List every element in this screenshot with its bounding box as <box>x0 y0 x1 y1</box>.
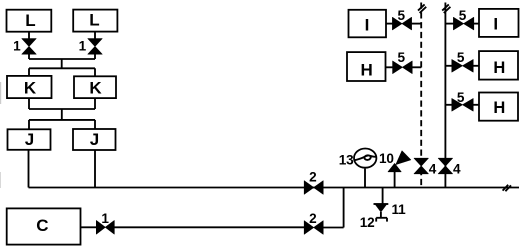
relief valve 10 <box>388 151 411 172</box>
wire J1 down to main line <box>28 150 30 188</box>
svg-text:11: 11 <box>392 202 407 217</box>
box L2 <box>73 10 117 32</box>
wire gauge stub <box>364 169 366 188</box>
break mark on main line (right end) <box>503 185 511 191</box>
svg-text:K: K <box>24 79 37 98</box>
wire bus above J <box>29 119 95 121</box>
wire H-left to valve <box>386 66 393 68</box>
valve 1 (left, under L1) <box>22 39 36 55</box>
wire bus under L valves <box>29 58 95 60</box>
box L1 <box>7 10 52 32</box>
valve 1 (right of C) <box>96 221 114 235</box>
wire valve to H-right row3 <box>473 104 479 106</box>
wire solid header to valve row2 right <box>445 65 452 67</box>
valve 5 (right column, row 2) <box>452 60 473 73</box>
svg-text:5: 5 <box>398 8 406 23</box>
scan artifact streak <box>0 82 1 104</box>
box C <box>7 208 81 244</box>
wire K1 down <box>28 98 30 109</box>
wire L1 to valve <box>28 32 30 39</box>
valve 5 (left column, row 2) <box>393 61 413 74</box>
wire bus above K <box>29 67 95 69</box>
svg-text:L: L <box>89 11 99 30</box>
box H (left column) <box>347 52 386 81</box>
box I (left column) <box>349 10 387 38</box>
wire stub to relief valve 10 <box>394 172 396 188</box>
valve 4 (right, on solid header) <box>438 158 452 174</box>
svg-text:H: H <box>360 61 372 80</box>
box I (right column) <box>479 9 519 37</box>
wire dashed header line <box>420 3 422 188</box>
svg-text:K: K <box>89 79 102 98</box>
svg-text:L: L <box>25 11 35 30</box>
wire into J1 <box>28 120 30 129</box>
wire into K1 <box>28 68 30 76</box>
wire valve to I-right <box>474 23 479 25</box>
wire drain drop <box>382 188 384 205</box>
svg-text:5: 5 <box>457 90 465 105</box>
svg-text:H: H <box>493 99 505 117</box>
wire into J2 <box>94 120 96 129</box>
wire solid header to valve row3 right <box>445 104 452 106</box>
svg-text:J: J <box>90 130 99 149</box>
svg-text:I: I <box>365 15 370 34</box>
wire valve to dashed header <box>412 23 422 25</box>
wire L2 to valve <box>94 32 96 39</box>
wire valve to H-right row2 <box>473 65 479 67</box>
wire center drop 2 <box>61 109 63 120</box>
wire lower line <box>114 226 304 228</box>
svg-text:13: 13 <box>339 153 354 168</box>
wire into K2 <box>94 68 96 76</box>
gauge 13 circle <box>354 149 376 168</box>
box H (right column, row 3) <box>479 93 518 121</box>
wire valve1R down <box>94 54 96 59</box>
svg-text:1: 1 <box>79 39 87 54</box>
wire valve1L down <box>28 54 30 59</box>
wire center drop <box>61 59 63 68</box>
wire I-left to valve <box>386 23 393 25</box>
break mark on dashed header <box>418 4 426 13</box>
valve 5 (right column, row 1) <box>453 17 473 30</box>
box J1 <box>8 129 51 150</box>
svg-text:I: I <box>493 15 498 34</box>
break mark on solid header <box>442 4 450 13</box>
svg-text:H: H <box>493 59 505 77</box>
svg-text:5: 5 <box>457 50 465 65</box>
valve 4 (left, on dashed header) <box>414 158 428 174</box>
svg-text:5: 5 <box>459 8 467 23</box>
svg-text:1: 1 <box>13 39 21 54</box>
svg-text:2: 2 <box>309 211 317 226</box>
wire bus under K <box>29 108 95 110</box>
box K2 <box>74 76 116 98</box>
valve 5 (right column, row 3) <box>452 99 473 112</box>
box J2 <box>73 129 116 150</box>
svg-text:10: 10 <box>379 151 394 166</box>
wire main horizontal line <box>29 187 520 189</box>
wire K2 down <box>94 98 96 109</box>
wire valve to dashed header row 2 <box>412 66 421 68</box>
svg-text:C: C <box>36 216 48 235</box>
box K1 <box>7 76 52 98</box>
svg-text:4: 4 <box>453 162 461 177</box>
svg-text:5: 5 <box>398 50 406 65</box>
wire lower line to riser <box>323 227 343 229</box>
svg-text:4: 4 <box>429 162 437 177</box>
box H (right column, row 2) <box>479 51 518 80</box>
gauge 13 internal squiggle <box>354 155 376 160</box>
valve 2 (upper) <box>304 181 323 195</box>
wire C to valve <box>81 226 97 228</box>
drain valve 11 <box>374 204 389 218</box>
valve 2 (lower) <box>304 221 323 235</box>
valve 5 (left column, row 1) <box>392 17 411 30</box>
svg-text:2: 2 <box>309 169 317 184</box>
wire solid header line <box>444 3 446 188</box>
valve 1 (right, under L2) <box>88 39 102 55</box>
drain funnel 12 <box>376 218 387 222</box>
svg-text:12: 12 <box>360 215 375 230</box>
svg-text:J: J <box>25 130 34 149</box>
svg-text:1: 1 <box>101 211 109 226</box>
wire solid header to valve row1 right <box>445 23 453 25</box>
wire riser <box>343 188 345 228</box>
wire J2 down to main line <box>94 150 96 188</box>
